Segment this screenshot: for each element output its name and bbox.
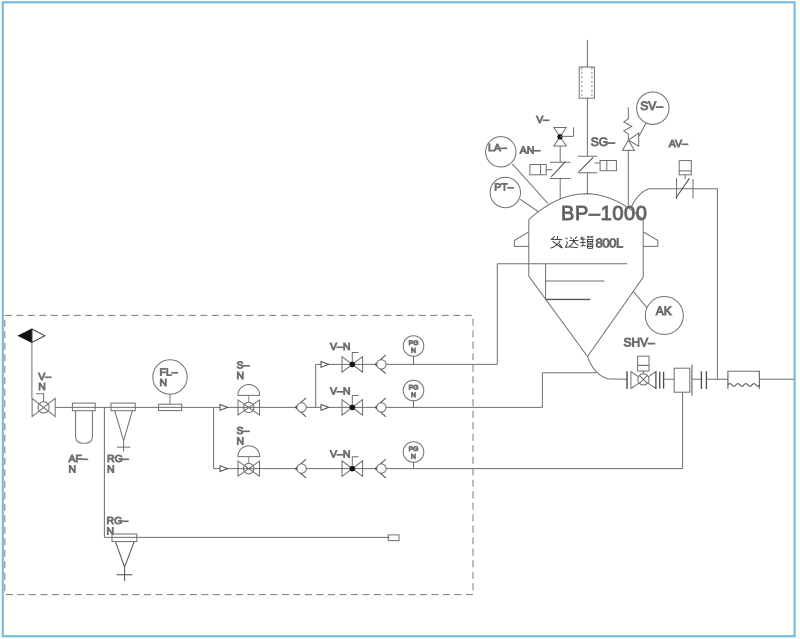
svg-text:SG–: SG– <box>591 135 615 149</box>
coupling check 1 <box>295 398 306 417</box>
coupling check row1 <box>375 355 386 374</box>
tank support bracket left <box>514 232 528 247</box>
relief valve SV angle body <box>622 133 638 150</box>
svg-text:N: N <box>160 377 168 389</box>
wire pot to flanges <box>692 378 701 380</box>
flow arrow row3 <box>220 466 228 472</box>
nozzle tick at dome apex <box>584 193 592 195</box>
flow arrow row2 <box>321 405 329 411</box>
svg-text:PG: PG <box>409 340 419 347</box>
wire branch down to purge row <box>103 407 105 537</box>
regulator RG-N purge <box>112 534 137 581</box>
svg-text:AK: AK <box>656 304 672 318</box>
svg-text:N: N <box>411 392 416 399</box>
hose break AV-N <box>676 161 693 199</box>
label RG-N purge <box>107 515 129 537</box>
svg-text:PT–: PT– <box>494 181 513 193</box>
gauge PG-N row2 <box>403 380 424 407</box>
tank internal dip lines <box>546 264 605 300</box>
svg-text:N: N <box>107 463 115 475</box>
label V-N <box>38 371 51 393</box>
wire PT leader <box>520 199 538 211</box>
flange pair <box>701 371 706 389</box>
purge line end cap <box>388 535 399 541</box>
tank outlet elbow <box>588 357 628 380</box>
glyph GUAN (罐) <box>580 236 593 249</box>
flexible hose <box>728 371 760 389</box>
label S-N lower <box>237 425 250 447</box>
wire dip pipe into tank <box>497 263 627 265</box>
wire LA leader <box>512 164 547 204</box>
label S-N upper <box>237 360 250 382</box>
svg-text:N: N <box>411 348 416 355</box>
gauge PG-N row3 <box>403 442 424 469</box>
wire flag stem <box>31 342 33 398</box>
label AF-N <box>69 453 88 476</box>
wire branch up to row1 <box>315 364 317 407</box>
tank BP-1000 dome <box>529 194 643 220</box>
coupling check row2 <box>375 398 386 417</box>
instrument AK <box>645 297 683 335</box>
label FL-N <box>160 367 178 389</box>
tank internal level line <box>546 298 591 300</box>
coupling check row3a <box>295 459 306 478</box>
svg-text:SV–: SV– <box>640 99 663 113</box>
coupling check row3b <box>375 459 386 478</box>
wire vent valve to breather <box>559 146 561 162</box>
svg-text:N: N <box>38 381 46 393</box>
flow element FL-N <box>153 360 187 411</box>
wire row2 to tank outlet <box>542 372 596 374</box>
instrument SV- <box>637 92 669 124</box>
flow arrow main <box>220 405 228 411</box>
wire SV valve to dome <box>627 150 629 205</box>
wire row1 <box>316 363 498 365</box>
tank shell walls <box>529 220 643 278</box>
instrument PT- <box>490 177 520 207</box>
valve V-N row3 <box>342 457 363 477</box>
svg-text:PG: PG <box>409 385 419 392</box>
valve SHV ball <box>627 356 664 389</box>
wire branch down to row3 <box>213 407 215 468</box>
tank cone <box>529 276 643 356</box>
valve V-N row1 <box>342 353 363 373</box>
svg-text:N: N <box>69 463 77 475</box>
wire flange to hose <box>706 378 727 380</box>
glyph SONG (送) <box>565 237 578 248</box>
wire vent stack top <box>586 40 588 67</box>
wire purge row <box>104 536 389 538</box>
svg-text:AV–: AV– <box>669 138 688 150</box>
svg-text:V–N: V–N <box>330 449 350 461</box>
drain pot <box>674 365 692 396</box>
svg-text:800L: 800L <box>596 236 623 251</box>
svg-text:N: N <box>411 454 416 461</box>
svg-text:N: N <box>237 435 245 447</box>
wire main header <box>55 406 542 408</box>
relief valve spring <box>624 107 632 140</box>
sight glass SG-N <box>578 156 617 173</box>
svg-text:N: N <box>237 370 245 382</box>
svg-text:AN–: AN– <box>520 145 541 157</box>
wire breather to dome <box>559 179 561 200</box>
valve V-N inlet <box>32 394 55 417</box>
svg-text:LA–: LA– <box>488 142 507 154</box>
gauge PG-N row1 <box>403 336 424 365</box>
wire riser row1 to dip pipe <box>496 264 498 365</box>
wire row3 <box>214 468 683 470</box>
wire riser row2 <box>541 373 543 408</box>
dashed enclosure box <box>5 315 473 594</box>
svg-text:V–N: V–N <box>330 385 350 397</box>
wire AV riser down <box>716 189 718 380</box>
wire vent stack middle <box>586 98 588 156</box>
valve S-N upper <box>238 385 260 416</box>
wire outlet to pot <box>664 378 674 380</box>
wire SV leader <box>639 123 646 137</box>
wire AV line from dome <box>632 189 718 206</box>
wire hose to edge <box>759 378 794 380</box>
instrument LA- <box>486 137 516 167</box>
vent valve V- <box>554 127 574 146</box>
wire riser row3 to drain pot <box>682 392 684 468</box>
valve S-N lower <box>238 446 260 477</box>
svg-text:N: N <box>107 525 115 537</box>
svg-text:SHV–: SHV– <box>624 336 656 350</box>
wire AK leader <box>633 292 647 309</box>
glyph FA (发) <box>551 236 563 248</box>
flame arrestor <box>579 67 594 98</box>
svg-text:V–N: V–N <box>330 341 350 353</box>
node supply flag <box>19 329 45 342</box>
filter AF-N <box>72 403 95 443</box>
svg-text:V–: V– <box>536 114 549 126</box>
wire vent stack lower <box>586 173 588 194</box>
flow arrow row1 <box>321 362 329 368</box>
label RG-N <box>107 453 129 476</box>
regulator RG-N <box>111 403 135 452</box>
tank support bracket right <box>643 232 658 247</box>
valve V-N row2 <box>342 396 363 416</box>
svg-text:PG: PG <box>409 446 419 453</box>
svg-text:BP–1000: BP–1000 <box>561 203 648 225</box>
breather AN-N <box>530 162 571 179</box>
